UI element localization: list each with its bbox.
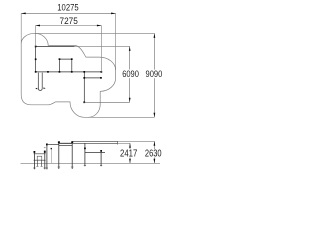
right tower feet xyxy=(84,164,102,166)
equipment right vertical xyxy=(83,72,85,102)
swing arrows xyxy=(35,87,45,89)
svg-text:9090: 9090 xyxy=(146,68,163,79)
equipment platform top edge xyxy=(36,45,75,47)
dim 6090 ext top xyxy=(74,45,129,47)
dim 2417 ext xyxy=(118,142,130,144)
right tower posts xyxy=(85,143,101,166)
dim 2417 text xyxy=(119,149,137,157)
dim 6090 line xyxy=(129,46,131,102)
equipment main bar xyxy=(36,71,102,73)
left tower minor posts xyxy=(37,160,41,166)
right tower bar xyxy=(85,152,105,154)
dim 2630 ext xyxy=(118,140,155,142)
tall tower top bar xyxy=(59,142,72,144)
left tower posts xyxy=(34,151,44,169)
dim 10275 line xyxy=(21,12,115,14)
dim 2630 line xyxy=(153,141,155,163)
svg-text:10275: 10275 xyxy=(57,3,78,14)
dim 2417 arrows xyxy=(129,143,131,163)
ground line xyxy=(21,162,161,164)
stair post xyxy=(46,144,48,169)
tall tower caps xyxy=(58,141,60,143)
dim 7275 ext lines xyxy=(36,26,102,72)
monkey bar rails xyxy=(72,141,117,143)
svg-text:6090: 6090 xyxy=(122,68,139,79)
right tower caps xyxy=(84,148,86,150)
dim 6090 ext bottom xyxy=(84,101,129,103)
plan view safety-zone outline xyxy=(21,33,115,117)
dim 6090 text xyxy=(121,70,139,79)
dim 10275 ext lines xyxy=(21,13,115,70)
dim 2630 arrows xyxy=(154,141,156,163)
dim 9090 text xyxy=(145,70,163,79)
left tower panel xyxy=(37,156,42,160)
equipment platform left edge xyxy=(35,46,37,72)
dim 6090 arrows xyxy=(129,46,131,102)
svg-text:2417: 2417 xyxy=(120,148,137,159)
dim 2630 text xyxy=(144,149,162,157)
tall tower second bar xyxy=(59,144,72,146)
dim 10275 arrows xyxy=(21,13,115,15)
equipment bridge bar xyxy=(84,77,101,79)
dim 9090 arrows xyxy=(154,33,156,117)
dim 9090 line xyxy=(153,33,155,117)
equipment sub-rectangle xyxy=(60,59,72,72)
posts (plan) xyxy=(35,46,102,104)
dim 2417 line xyxy=(129,143,131,163)
svg-text:2630: 2630 xyxy=(145,148,162,159)
dim 9090 ext top xyxy=(35,32,155,34)
svg-text:7275: 7275 xyxy=(60,16,78,26)
dim 9090 ext bottom xyxy=(88,116,154,118)
dim 7275 arrows xyxy=(36,25,102,27)
tall tower feet xyxy=(58,166,74,168)
rail end tick xyxy=(117,141,119,144)
stair rail xyxy=(47,143,59,145)
tall tower posts xyxy=(59,142,72,169)
left tower bars xyxy=(34,154,46,160)
stair stubs and foot xyxy=(44,148,48,168)
left tower caps xyxy=(34,151,36,153)
dim 7275 line xyxy=(36,25,102,27)
left tower feet xyxy=(33,166,46,168)
swing chute xyxy=(38,73,42,91)
stair mini post xyxy=(51,148,52,149)
